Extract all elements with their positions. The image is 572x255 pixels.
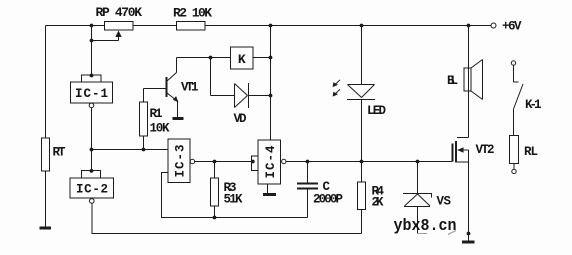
svg-text:51K: 51K xyxy=(224,193,243,207)
LED xyxy=(335,80,375,100)
ground VT1 emitter xyxy=(173,117,184,120)
terminal +6V xyxy=(491,23,496,28)
node top-BL branch xyxy=(467,24,471,28)
wire BL branch / VT2 drain xyxy=(468,26,470,138)
node C top xyxy=(306,160,310,164)
wire VD left lead xyxy=(211,95,235,97)
wire R1 bottom lead xyxy=(143,136,145,150)
wire K right lead xyxy=(253,57,271,59)
wire R1 top lead xyxy=(143,89,145,103)
resistor R2 xyxy=(177,22,206,31)
node VS top xyxy=(416,160,420,164)
ground IC-4 xyxy=(263,193,276,196)
wire K-VD branch to IC-4 top xyxy=(270,26,272,141)
svg-text:R1: R1 xyxy=(150,107,163,121)
resistor R4 xyxy=(358,182,366,210)
svg-text:RL: RL xyxy=(524,145,538,159)
svg-text:VT2: VT2 xyxy=(476,143,495,157)
svg-text:BL: BL xyxy=(447,74,458,88)
wire VT2 source to ground xyxy=(468,162,470,241)
watermark patch xyxy=(448,231,456,235)
node RP wiper xyxy=(90,39,94,43)
node VT2 source bottom xyxy=(467,232,471,236)
relay coil K xyxy=(231,47,254,69)
svg-text:IC-1: IC-1 xyxy=(75,87,108,101)
svg-text:IC-2: IC-2 xyxy=(76,183,108,197)
wire signal row to IC-3 xyxy=(92,149,169,151)
svg-text:2000P: 2000P xyxy=(313,193,343,207)
node R1 bottom xyxy=(142,148,146,152)
svg-text:K: K xyxy=(238,52,246,67)
wire top rail xyxy=(46,25,105,27)
svg-text:VT1: VT1 xyxy=(181,81,199,95)
wire IC-1 out to IC-2 in xyxy=(91,108,93,171)
svg-text:IC-4: IC-4 xyxy=(264,145,278,178)
svg-text:ybx8.cn: ybx8.cn xyxy=(394,216,457,235)
wire VD right lead xyxy=(248,95,271,97)
resistor RL xyxy=(510,136,519,164)
wire VT1 collector to K xyxy=(177,57,231,59)
switch K-1 xyxy=(511,61,523,174)
svg-text:RP 470K: RP 470K xyxy=(96,5,143,20)
op-amp block IC-2 xyxy=(70,171,114,204)
wire IC-4 ground lead xyxy=(267,184,269,193)
node top-K/VD branch xyxy=(269,24,273,28)
node IC-2 input xyxy=(90,169,94,173)
ground VT2 source xyxy=(462,241,475,244)
wire C bottom lead xyxy=(307,189,309,218)
node collector-K-VD xyxy=(209,56,213,60)
wire VS bottom lead xyxy=(417,206,419,234)
ground left rail xyxy=(40,227,52,230)
transistor VT1 xyxy=(167,58,178,118)
zener diode VS xyxy=(403,194,432,207)
capacitor C xyxy=(297,184,318,189)
node top-LED branch xyxy=(360,24,364,28)
wire LED branch top xyxy=(361,26,363,85)
MOSFET VT2 xyxy=(453,138,469,163)
potentiometer RP wiper arrow xyxy=(115,31,121,38)
node top-IC1 branch xyxy=(90,24,94,28)
gate IC-3 xyxy=(168,139,195,183)
diode VD xyxy=(235,83,249,108)
wire R4 top lead xyxy=(361,162,363,183)
wire R3 top lead xyxy=(214,162,216,179)
node K right xyxy=(269,56,273,60)
resistor R3 xyxy=(211,178,219,206)
svg-text:2K: 2K xyxy=(372,196,384,210)
wire IC-3 out to IC-4 in xyxy=(195,161,252,163)
wire VT1 base lead xyxy=(144,88,167,90)
node IC-1 out row xyxy=(90,148,94,152)
op-amp block IC-1 xyxy=(71,75,113,108)
wire K left branch down xyxy=(210,58,212,96)
svg-text:K-1: K-1 xyxy=(525,98,542,112)
node VD right xyxy=(269,94,273,98)
svg-text:R2 10K: R2 10K xyxy=(173,6,212,21)
svg-text:VS: VS xyxy=(437,195,452,209)
wire IC-3 lower loop xyxy=(162,173,308,218)
wire IC-2 out bottom rail xyxy=(92,203,362,233)
node LED/R4 xyxy=(360,160,364,164)
node IC-1 input xyxy=(90,74,94,78)
node IC-4 input xyxy=(251,160,255,164)
node R3 top xyxy=(213,160,217,164)
speaker BL xyxy=(464,60,483,100)
wire RP wiper to node xyxy=(92,40,119,42)
potentiometer RP body xyxy=(105,22,134,31)
svg-text:LED: LED xyxy=(367,104,386,118)
resistor R1 xyxy=(140,102,148,136)
node R3 bottom xyxy=(213,216,217,220)
wire node to IC-1 xyxy=(91,26,93,76)
wire IC-4 out to VT2 gate xyxy=(286,161,453,163)
wire left rail xyxy=(45,26,47,227)
gate IC-4 xyxy=(252,140,286,184)
wire LED bottom to node xyxy=(361,99,363,162)
svg-text:+6V: +6V xyxy=(502,20,522,34)
wire R4 bottom lead xyxy=(361,210,363,234)
wire R3 bottom lead xyxy=(214,206,216,218)
svg-text:10K: 10K xyxy=(150,122,170,136)
svg-text:RT: RT xyxy=(53,146,66,160)
svg-text:VD: VD xyxy=(234,112,247,126)
wire VS top lead xyxy=(417,162,419,194)
resistor RT xyxy=(42,138,50,171)
wire C top lead xyxy=(307,162,309,184)
svg-text:IC-3: IC-3 xyxy=(174,145,188,178)
